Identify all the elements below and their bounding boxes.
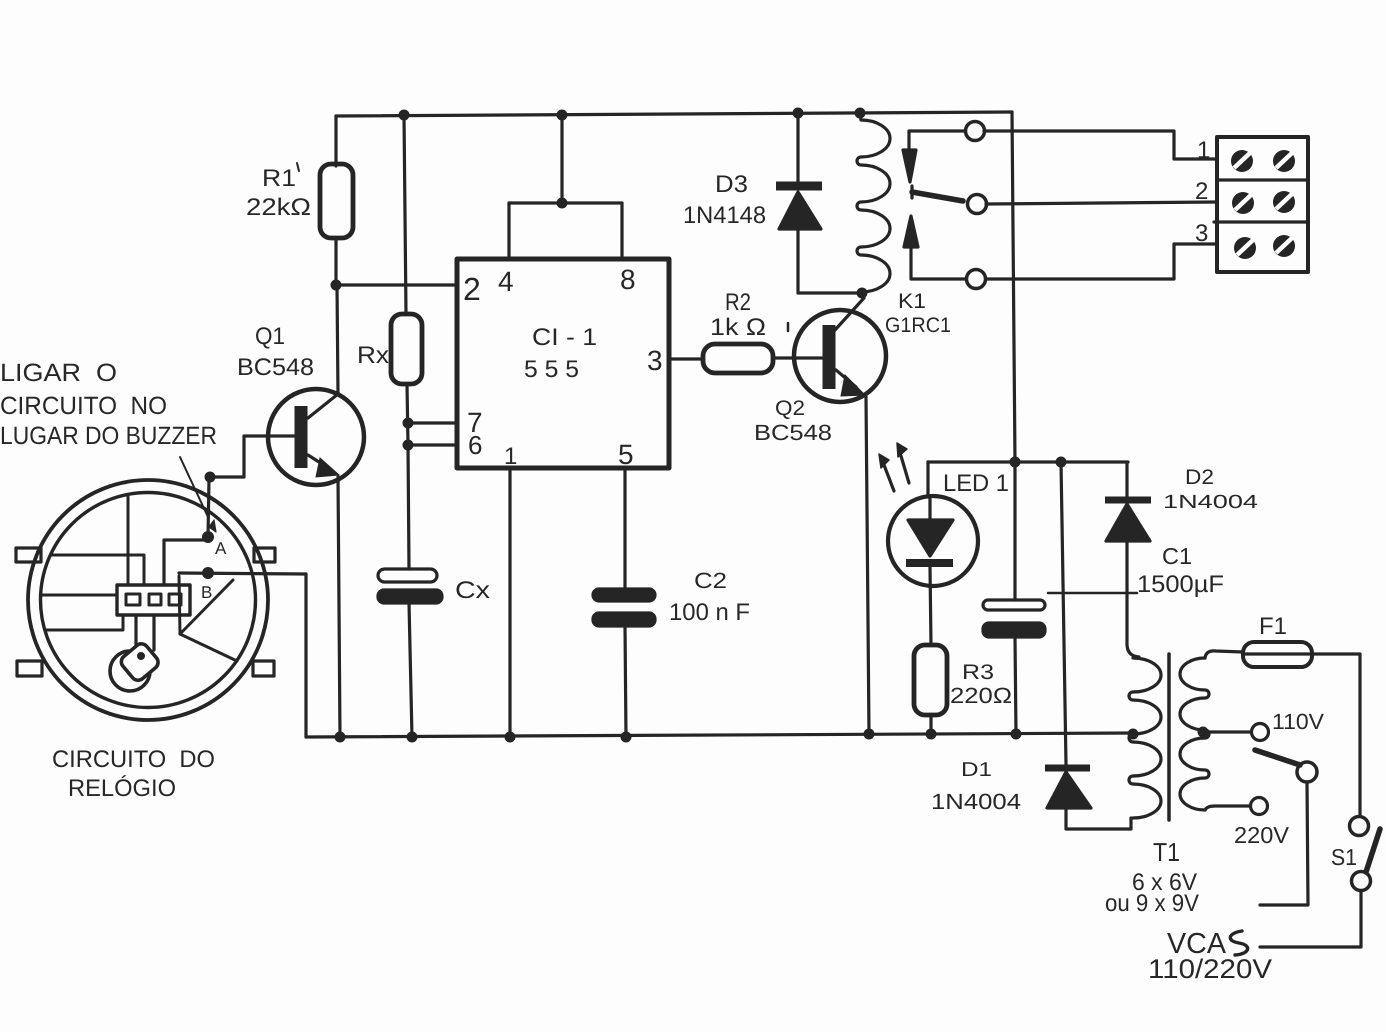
svg-text:BC548: BC548 <box>754 420 832 445</box>
svg-text:CIRCUITO DO: CIRCUITO DO <box>52 746 215 773</box>
svg-text:D1: D1 <box>961 759 992 781</box>
svg-text:D2: D2 <box>1185 466 1214 489</box>
svg-text:1N4148: 1N4148 <box>683 202 766 229</box>
svg-text:A: A <box>215 539 227 558</box>
svg-text:Q2: Q2 <box>775 397 805 420</box>
svg-text:CI - 1: CI - 1 <box>532 324 597 351</box>
svg-text:R2: R2 <box>725 289 751 316</box>
svg-text:5: 5 <box>618 439 634 470</box>
svg-text:22kΩ: 22kΩ <box>246 194 311 221</box>
svg-text:4: 4 <box>498 266 514 297</box>
svg-text:1N4004: 1N4004 <box>931 789 1021 814</box>
svg-text:3: 3 <box>1195 220 1208 247</box>
svg-text:Cx: Cx <box>455 577 490 604</box>
svg-text:1N4004: 1N4004 <box>1163 492 1259 513</box>
svg-text:110V: 110V <box>1272 709 1324 734</box>
svg-text:S1: S1 <box>1331 844 1357 870</box>
svg-text:LUGAR DO BUZZER: LUGAR DO BUZZER <box>0 422 217 450</box>
svg-text:5 5 5: 5 5 5 <box>524 356 579 383</box>
svg-text:R3: R3 <box>962 661 994 684</box>
svg-text:1k Ω: 1k Ω <box>710 314 766 341</box>
svg-text:220V: 220V <box>1234 822 1290 848</box>
svg-text:K1: K1 <box>898 290 926 313</box>
svg-text:220Ω: 220Ω <box>950 683 1012 708</box>
svg-text:100 n F: 100 n F <box>669 599 750 626</box>
svg-text:1: 1 <box>504 443 517 470</box>
svg-text:F1: F1 <box>1259 613 1287 640</box>
svg-text:6: 6 <box>468 430 482 460</box>
svg-text:R1: R1 <box>262 165 296 192</box>
svg-text:C1: C1 <box>1162 543 1192 569</box>
svg-text:8: 8 <box>620 264 636 295</box>
svg-text:G1RC1: G1RC1 <box>885 314 951 337</box>
svg-text:2: 2 <box>1195 178 1208 205</box>
svg-text:ou 9 x 9V: ou 9 x 9V <box>1105 890 1199 917</box>
svg-text:T1: T1 <box>1153 837 1180 867</box>
svg-text:CIRCUITO NO: CIRCUITO NO <box>0 392 167 420</box>
svg-text:110/220V: 110/220V <box>1148 954 1272 984</box>
svg-text:LED 1: LED 1 <box>943 470 1009 497</box>
svg-text:3: 3 <box>647 345 663 376</box>
svg-text:1: 1 <box>1197 137 1210 164</box>
svg-text:C2: C2 <box>694 568 727 593</box>
svg-text:Rx: Rx <box>357 342 389 369</box>
svg-text:BC548: BC548 <box>237 354 314 381</box>
svg-text:2: 2 <box>463 271 481 307</box>
svg-text:B: B <box>201 583 212 602</box>
svg-text:LIGAR O: LIGAR O <box>0 359 117 387</box>
svg-text:Q1: Q1 <box>255 323 285 350</box>
svg-text:D3: D3 <box>715 171 748 198</box>
svg-text:1500µF: 1500µF <box>1137 571 1224 598</box>
svg-text:RELÓGIO: RELÓGIO <box>68 775 176 802</box>
